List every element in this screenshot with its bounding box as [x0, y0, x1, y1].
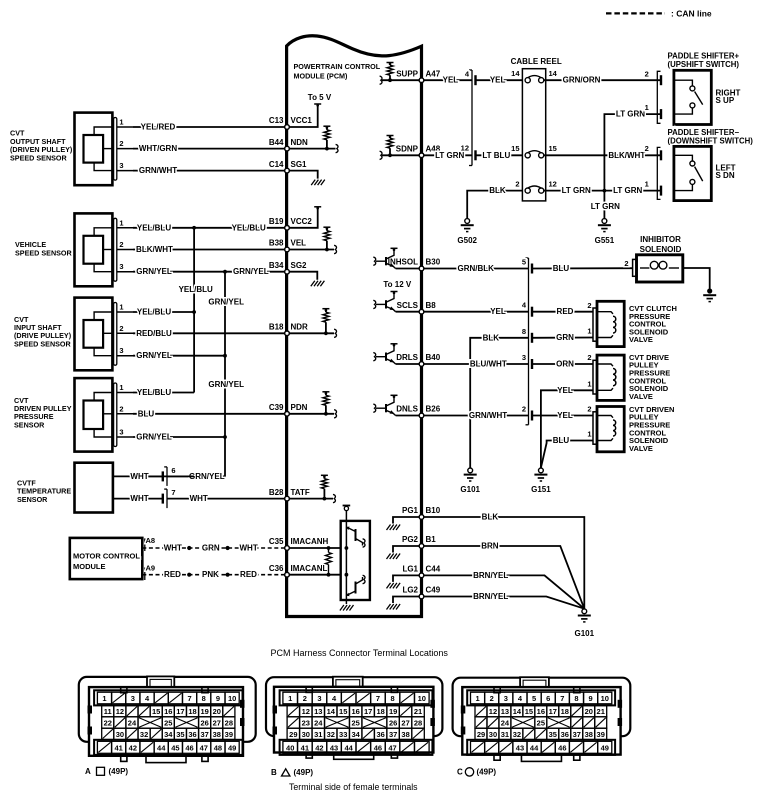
pin A48 SDNP: [396, 145, 441, 158]
svg-text:MODULE (PCM): MODULE (PCM): [294, 71, 349, 80]
svg-text:37: 37: [573, 730, 581, 739]
svg-text:LT GRN: LT GRN: [613, 186, 642, 195]
svg-text:7: 7: [171, 488, 175, 497]
svg-text:29: 29: [289, 730, 297, 739]
svg-text:24: 24: [501, 719, 510, 728]
svg-text:2: 2: [490, 694, 494, 703]
svg-text:PDN: PDN: [291, 403, 308, 412]
svg-text:C35: C35: [269, 537, 284, 546]
svg-text:9: 9: [216, 694, 220, 703]
inline connector C4-C12: [461, 70, 476, 166]
wire LT GRN SDNP to connector: [422, 151, 473, 160]
svg-text:C13: C13: [269, 116, 284, 125]
svg-text:IMACANH: IMACANH: [291, 537, 329, 546]
svg-text:PCM Harness Connector Terminal: PCM Harness Connector Terminal Locations: [271, 648, 449, 658]
svg-text:PG2: PG2: [402, 535, 419, 544]
ground after inhibitor solenoid: [703, 288, 716, 301]
svg-text:YEL: YEL: [443, 76, 459, 85]
svg-text:6: 6: [171, 466, 175, 475]
ground G101 lower: [575, 609, 595, 638]
wire BLK PG1 to G101: [422, 513, 585, 609]
svg-text:3: 3: [119, 262, 123, 271]
CAN transceiver block: [287, 506, 370, 611]
svg-text:GRN/ORN: GRN/ORN: [563, 76, 601, 85]
svg-text:27: 27: [401, 719, 409, 728]
svg-text:G551: G551: [595, 236, 615, 245]
svg-text:IMACANL: IMACANL: [291, 564, 328, 573]
svg-text:DRLS: DRLS: [396, 353, 418, 362]
wire GRN/WHT sensor1 pin3 to C14: [133, 166, 287, 175]
svg-text:16: 16: [537, 707, 545, 716]
wire BLK/WHT cable reel to downshift switch: [544, 151, 661, 160]
svg-text:VEL: VEL: [291, 239, 307, 248]
wire YEL drive valve pin1 to G151: [541, 380, 593, 468]
svg-text:1: 1: [119, 218, 123, 227]
wire GRN/YEL sensor3 pin3 to rail: [133, 351, 225, 360]
svg-text:SENSOR: SENSOR: [17, 495, 48, 504]
svg-text:21: 21: [597, 707, 605, 716]
svg-text:13: 13: [314, 707, 322, 716]
pin C49 LG2: [402, 586, 440, 599]
svg-text:VCC1: VCC1: [291, 116, 313, 125]
svg-text:B44: B44: [269, 138, 284, 147]
svg-text:YEL/RED: YEL/RED: [141, 123, 176, 132]
svg-text:B38: B38: [269, 239, 284, 248]
svg-text:LT GRN: LT GRN: [591, 202, 620, 211]
svg-text:2: 2: [515, 179, 519, 188]
wire LT GRN junction to G551: [591, 191, 620, 219]
pin C36 IMACANL: [269, 564, 328, 577]
svg-text:36: 36: [561, 730, 569, 739]
internal chassis ground: [387, 517, 422, 530]
svg-text:WHT: WHT: [130, 494, 148, 503]
svg-text:SDNP: SDNP: [396, 145, 419, 154]
svg-text:10: 10: [418, 694, 426, 703]
wire BLK/WHT sensor2 pin2 to B38: [133, 245, 287, 254]
svg-text:2: 2: [587, 405, 591, 414]
svg-text:8: 8: [202, 694, 206, 703]
svg-text:15: 15: [152, 707, 160, 716]
connector C label: [457, 767, 496, 776]
svg-text:Terminal side of female termin: Terminal side of female terminals: [289, 782, 418, 792]
svg-text:2: 2: [624, 259, 628, 268]
svg-text:1: 1: [288, 694, 292, 703]
inhibitor solenoid: [633, 235, 683, 282]
wire GRN/YEL pin6 segment: [167, 475, 194, 477]
inline connector solenoids: [522, 258, 532, 425]
pin B40 DRLS: [396, 353, 441, 366]
svg-text:15: 15: [339, 707, 347, 716]
svg-text:C49: C49: [426, 586, 441, 595]
svg-text:SG1: SG1: [291, 160, 308, 169]
connector 6: [163, 466, 176, 486]
svg-text:12: 12: [549, 179, 557, 188]
svg-text:1: 1: [475, 694, 479, 703]
svg-text:41: 41: [114, 743, 122, 752]
svg-text:14: 14: [513, 707, 522, 716]
svg-text:G502: G502: [457, 236, 477, 245]
svg-text:C14: C14: [269, 160, 284, 169]
svg-text:49: 49: [601, 743, 609, 752]
wire RED to clutch valve: [532, 301, 593, 316]
svg-text:46: 46: [374, 743, 382, 752]
svg-text:MOTOR CONTROL: MOTOR CONTROL: [73, 552, 140, 561]
svg-text:A: A: [85, 767, 91, 776]
pin C39 PDN: [269, 403, 308, 416]
ground G502: [457, 219, 477, 245]
svg-text:YEL/BLU: YEL/BLU: [179, 285, 213, 294]
svg-text:GRN/BLK: GRN/BLK: [457, 264, 494, 273]
svg-text:BLK/WHT: BLK/WHT: [608, 151, 645, 160]
wire YEL/RED sensor1 pin1 to C13: [133, 123, 287, 132]
svg-text:20: 20: [213, 707, 221, 716]
internal resistor SUPP: [380, 63, 422, 85]
svg-text:45: 45: [171, 743, 179, 752]
svg-text:1: 1: [587, 429, 591, 438]
vehicle speed sensor: [15, 213, 133, 286]
svg-text:YEL/BLU: YEL/BLU: [137, 223, 171, 232]
svg-text:16: 16: [352, 707, 360, 716]
connector A label: [85, 767, 128, 776]
svg-text:1: 1: [119, 383, 123, 392]
svg-text:LT GRN: LT GRN: [562, 186, 591, 195]
wire BLU/WHT DRLS to connector: [422, 360, 529, 369]
svg-text:WHT/GRN: WHT/GRN: [139, 144, 177, 153]
svg-text:2: 2: [587, 353, 591, 362]
wire LT GRN upshift pin1: [604, 110, 660, 191]
svg-text:2: 2: [645, 70, 649, 79]
wire LT GRN cable reel to downshift pin1: [544, 186, 661, 195]
svg-text:44: 44: [157, 743, 166, 752]
svg-text:17: 17: [176, 707, 184, 716]
svg-text:RED: RED: [164, 570, 181, 579]
svg-text:43: 43: [330, 743, 338, 752]
ground G151: [531, 468, 551, 494]
svg-text:2: 2: [645, 144, 649, 153]
wire WHT sensor5 pin6: [113, 472, 162, 481]
pin B26 DNLS: [396, 405, 441, 418]
pin B30 INHSOL: [388, 258, 441, 271]
pin B28 TATF: [269, 488, 310, 501]
SG2 ground: [287, 272, 324, 287]
svg-text:B1: B1: [426, 535, 437, 544]
svg-text:48: 48: [214, 743, 222, 752]
svg-text:5: 5: [522, 258, 526, 267]
svg-text:3: 3: [504, 694, 508, 703]
svg-text:3: 3: [119, 428, 123, 437]
svg-text:25: 25: [537, 719, 545, 728]
svg-text:30: 30: [116, 730, 124, 739]
pin B1 PG2: [402, 535, 436, 548]
wire ORN to drive valve: [532, 353, 593, 368]
svg-text:2: 2: [119, 139, 123, 148]
svg-text:LG2: LG2: [402, 586, 418, 595]
terminal side note: [289, 782, 458, 792]
svg-text:BLK/WHT: BLK/WHT: [136, 245, 173, 254]
svg-text:GRN/YEL: GRN/YEL: [136, 433, 172, 442]
internal chassis ground: [387, 597, 422, 610]
svg-text:SENSOR: SENSOR: [14, 420, 45, 429]
svg-text:7: 7: [560, 694, 564, 703]
svg-text:BLU/WHT: BLU/WHT: [470, 360, 507, 369]
pin B44 NDN: [269, 138, 308, 151]
svg-text:(49P): (49P): [109, 767, 129, 776]
svg-text:B19: B19: [269, 217, 284, 226]
svg-text:B40: B40: [426, 353, 441, 362]
pull-up resistor TATF: [287, 475, 335, 503]
svg-text:: CAN line: : CAN line: [671, 9, 712, 19]
svg-text:VALVE: VALVE: [629, 444, 653, 453]
svg-text:WHT: WHT: [130, 472, 148, 481]
svg-text:1: 1: [587, 327, 591, 336]
svg-text:7: 7: [376, 694, 380, 703]
svg-text:35: 35: [176, 730, 184, 739]
svg-text:VALVE: VALVE: [629, 335, 653, 344]
svg-text:44: 44: [345, 743, 354, 752]
svg-text:VCC2: VCC2: [291, 217, 313, 226]
powertrain control module PCM outline: [287, 36, 422, 617]
CAN line legend: [606, 9, 718, 19]
svg-text:PG1: PG1: [402, 506, 419, 515]
svg-text:28: 28: [414, 719, 422, 728]
svg-text:BRN: BRN: [481, 542, 499, 551]
svg-text:GRN: GRN: [556, 333, 574, 342]
svg-text:LT GRN: LT GRN: [616, 110, 645, 119]
svg-text:C39: C39: [269, 403, 284, 412]
pin B8 SCLS: [397, 301, 437, 314]
svg-text:PNK: PNK: [202, 570, 219, 579]
svg-text:SOLENOID: SOLENOID: [640, 245, 682, 254]
svg-text:To 5 V: To 5 V: [308, 93, 332, 102]
svg-text:1: 1: [587, 380, 591, 389]
wire BLK connector to G101: [470, 333, 528, 468]
svg-text:9: 9: [589, 694, 593, 703]
wire GRN/BLK INHSOL to connector: [422, 264, 529, 273]
GRN/YEL rail: [133, 270, 244, 481]
pull-up resistor NDN: [287, 126, 338, 153]
svg-text:GRN/YEL: GRN/YEL: [136, 351, 172, 360]
YEL/BLU rail: [179, 226, 213, 393]
svg-text:3: 3: [119, 346, 123, 355]
svg-text:16: 16: [164, 707, 172, 716]
svg-text:GRN/WHT: GRN/WHT: [139, 166, 177, 175]
wire WHT sensor5 pin7: [113, 494, 162, 503]
wire GRN/WHT DNLS to connector: [422, 411, 529, 420]
wire BLK to G502: [467, 186, 522, 218]
svg-text:B28: B28: [269, 488, 284, 497]
svg-text:2: 2: [587, 301, 591, 310]
svg-text:G151: G151: [531, 485, 551, 494]
svg-text:C36: C36: [269, 564, 284, 573]
svg-text:YEL/BLU: YEL/BLU: [137, 388, 171, 397]
svg-text:17: 17: [549, 707, 557, 716]
svg-text:2: 2: [119, 324, 123, 333]
wire BRN PG2 to G101: [422, 542, 585, 609]
driver transistor DRLS: [373, 344, 421, 364]
svg-text:32: 32: [513, 730, 521, 739]
ground G101: [460, 468, 480, 494]
svg-text:5: 5: [532, 694, 536, 703]
svg-text:49: 49: [228, 743, 236, 752]
svg-text:GRN/YEL: GRN/YEL: [208, 297, 244, 306]
pin C35 IMACANH: [269, 537, 329, 550]
svg-text:29: 29: [477, 730, 485, 739]
svg-text:WHT: WHT: [164, 544, 182, 553]
svg-text:B34: B34: [269, 261, 284, 270]
svg-text:BLK: BLK: [482, 513, 499, 522]
svg-text:43: 43: [516, 743, 524, 752]
CVT input shaft (drive pulley) speed sensor: [14, 298, 133, 371]
svg-text:B26: B26: [426, 405, 441, 414]
svg-text:38: 38: [585, 730, 593, 739]
CVT driven pulley pressure control solenoid valve: [593, 405, 674, 453]
svg-text:32: 32: [327, 730, 335, 739]
svg-text:G101: G101: [460, 485, 480, 494]
pin B19 VCC2: [269, 217, 313, 230]
svg-text:MODULE: MODULE: [73, 562, 106, 571]
connector C view: [453, 677, 631, 761]
svg-text:18: 18: [188, 707, 196, 716]
CVT clutch pressure control solenoid valve: [593, 301, 677, 346]
svg-text:34: 34: [164, 730, 173, 739]
svg-text:10: 10: [228, 694, 236, 703]
paddle shifter + (upshift switch): [645, 51, 743, 124]
svg-text:15: 15: [549, 144, 557, 153]
svg-text:B8: B8: [426, 301, 437, 310]
svg-text:30: 30: [489, 730, 497, 739]
connector 7: [163, 488, 176, 508]
svg-text:B30: B30: [426, 258, 441, 267]
svg-text:WHT: WHT: [190, 494, 208, 503]
svg-text:38: 38: [213, 730, 221, 739]
svg-text:WHT: WHT: [239, 544, 257, 553]
wire BRN/YEL LG2 to G101: [422, 592, 585, 609]
svg-text:SPEED SENSOR: SPEED SENSOR: [10, 153, 68, 162]
svg-text:37: 37: [200, 730, 208, 739]
svg-text:S DN: S DN: [716, 171, 735, 180]
svg-text:42: 42: [315, 743, 323, 752]
svg-text:3: 3: [119, 161, 123, 170]
wire GRN/YEL sensor4 pin3 to rail: [133, 433, 225, 442]
svg-text:24: 24: [128, 719, 137, 728]
svg-text:15: 15: [525, 707, 533, 716]
CAN wire A8 to C35 IMACANH: [142, 544, 287, 553]
svg-text:7: 7: [187, 694, 191, 703]
internal chassis ground: [387, 546, 422, 559]
svg-text:24: 24: [314, 719, 323, 728]
svg-text:LT BLU: LT BLU: [482, 151, 510, 160]
svg-text:14: 14: [549, 69, 558, 78]
svg-text:GRN/YEL: GRN/YEL: [233, 267, 269, 276]
svg-text:A9: A9: [146, 563, 156, 572]
svg-text:GRN: GRN: [202, 544, 220, 553]
pin C13 VCC1: [269, 116, 313, 129]
svg-text:23: 23: [302, 719, 310, 728]
svg-text:S UP: S UP: [716, 96, 735, 105]
svg-text:8: 8: [390, 694, 394, 703]
internal chassis ground: [387, 575, 422, 588]
wire RED/BLU sensor3 pin2 to B18: [133, 329, 287, 338]
svg-text:C: C: [457, 767, 463, 776]
PCM pin contacts overlay: [285, 78, 424, 599]
svg-text:BLU: BLU: [138, 409, 155, 418]
svg-text:8: 8: [522, 327, 526, 336]
wire BLU driven valve pin1 to G151: [541, 429, 593, 467]
svg-text:BRN/YEL: BRN/YEL: [473, 592, 508, 601]
SG1 ground: [287, 171, 325, 186]
wire YEL/BLU sensor4 pin1 to rail: [133, 388, 194, 397]
svg-text:47: 47: [388, 743, 396, 752]
svg-text:B18: B18: [269, 323, 284, 332]
CVTF temperature sensor: [17, 463, 113, 513]
svg-text:YEL: YEL: [490, 307, 506, 316]
svg-text:41: 41: [301, 743, 309, 752]
svg-text:46: 46: [558, 743, 566, 752]
pin B18 NDR: [269, 323, 308, 336]
pin C44 LG1: [402, 565, 440, 578]
svg-text:25: 25: [164, 719, 172, 728]
svg-text:A47: A47: [426, 69, 441, 78]
wire GRN to clutch valve: [532, 327, 593, 343]
svg-text:2: 2: [303, 694, 307, 703]
connector A view: [79, 676, 256, 762]
svg-text:12: 12: [489, 707, 497, 716]
pin B34 SG2: [269, 261, 307, 274]
svg-text:15: 15: [511, 144, 519, 153]
wire YEL SCLS to connector: [422, 307, 529, 316]
svg-text:3: 3: [131, 694, 135, 703]
svg-text:39: 39: [597, 730, 605, 739]
svg-text:BLU: BLU: [553, 436, 570, 445]
svg-text:INHIBITOR: INHIBITOR: [640, 235, 681, 244]
wire WHT pin7 to B28: [167, 494, 287, 503]
svg-text:31: 31: [314, 730, 322, 739]
wire YEL/BLU sensor2 pin1 to B19: [133, 223, 287, 232]
svg-text:31: 31: [501, 730, 509, 739]
svg-text:2: 2: [119, 240, 123, 249]
svg-text:34: 34: [352, 730, 361, 739]
pin A47 SUPP: [396, 69, 441, 82]
svg-text:LT GRN: LT GRN: [435, 151, 464, 160]
svg-text:38: 38: [401, 730, 409, 739]
svg-text:25: 25: [352, 719, 360, 728]
svg-text:RED: RED: [240, 570, 257, 579]
pin B10 PG1: [402, 506, 441, 519]
svg-text:28: 28: [225, 719, 233, 728]
svg-text:To 12 V: To 12 V: [383, 280, 412, 289]
driver transistor DNLS: [373, 395, 421, 415]
svg-text:GRN/WHT: GRN/WHT: [469, 411, 507, 420]
svg-text:44: 44: [530, 743, 539, 752]
svg-text:YEL/BLU: YEL/BLU: [137, 308, 171, 317]
svg-text:2: 2: [119, 404, 123, 413]
svg-text:30: 30: [302, 730, 310, 739]
cable reel: [511, 57, 562, 201]
svg-text:(DOWNSHIFT SWITCH): (DOWNSHIFT SWITCH): [668, 137, 754, 146]
wire YEL SUPP to connector: [422, 76, 473, 85]
svg-text:37: 37: [389, 730, 397, 739]
wire WHT/GRN sensor1 pin2 to B44: [133, 144, 287, 153]
svg-text:19: 19: [200, 707, 208, 716]
internal resistor SDNP: [380, 136, 422, 160]
svg-text:18: 18: [561, 707, 569, 716]
pull-up resistor PDN: [287, 392, 337, 418]
CAN wire A9 to C36 IMACANL: [142, 570, 287, 579]
svg-text:VALVE: VALVE: [629, 392, 653, 401]
svg-text:BLU: BLU: [553, 264, 570, 273]
svg-text:NDR: NDR: [291, 323, 309, 332]
svg-text:14: 14: [511, 69, 520, 78]
